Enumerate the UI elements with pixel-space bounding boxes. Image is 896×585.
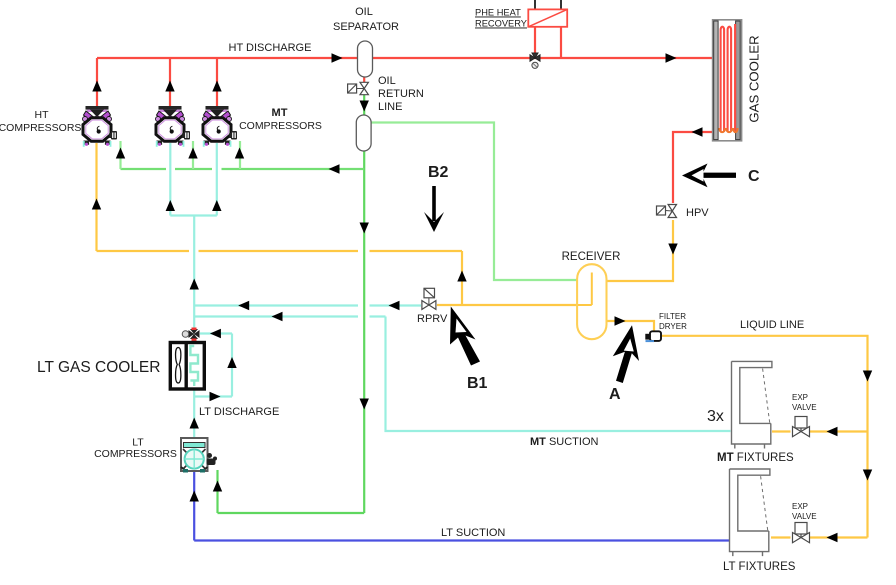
arrow vessel2 down line 2 [360,399,369,410]
arrow MT suction branch left [272,312,283,321]
wire oil valve to vessel2 [363,95,365,116]
wire HPV outlet down [607,220,674,281]
svg-text:C: C [748,168,760,185]
wire LT cooler bypass vertical [231,334,233,397]
svg-text:LIQUID LINE: LIQUID LINE [740,319,804,331]
wire comp1 discharge riser [96,58,98,108]
wire LT suction riser [193,472,195,541]
HPV solenoid valve [657,205,677,218]
svg-text:LT: LT [132,437,144,449]
wire LT discharge riser [193,340,195,438]
wire MT suction downcomer [386,317,731,432]
PHE heat recovery exchanger [528,9,567,26]
oil return solenoid valve [348,82,369,94]
arrow LT cooler top left [210,329,221,338]
svg-text:LINE: LINE [378,101,402,113]
wire MT suction branch line [194,315,385,317]
CALLOUTS [424,164,736,384]
svg-text:COMPRESSORS: COMPRESSORS [0,122,81,134]
svg-text:MT FIXTURES: MT FIXTURES [717,452,794,464]
arrow comp1 riser up [92,81,101,92]
callout arrow A [613,325,639,383]
wire vessel2 bottom down to LT branch [363,150,365,513]
svg-text:OIL: OIL [355,6,373,18]
callout arrow B2 [424,186,444,232]
arrow oil drop comp3 up [235,148,244,159]
arrow MT riser up [190,279,199,290]
MT compressor unit 2 [203,106,238,147]
arrow LT bypass up [227,357,236,368]
arrow LT suction up [190,491,199,502]
wire comp3 discharge riser [216,58,218,108]
arrow comp1 suction up [92,199,101,210]
receiver dip tube inner [578,273,592,306]
svg-text:LT DISCHARGE: LT DISCHARGE [199,406,279,418]
wire RPRV outlet line [194,304,421,306]
wire oil separator bottom stub [363,76,365,82]
svg-text:EXP: EXP [792,393,808,402]
svg-text:MT: MT [272,107,288,119]
ORANGE-LINES [97,143,868,538]
wire HT discharge header right [372,57,713,59]
svg-text:DRYER: DRYER [659,322,687,331]
svg-text:COMPRESSORS: COMPRESSORS [239,120,322,132]
LT compressor unit [181,438,217,473]
svg-text:A: A [609,386,621,403]
arrow oil to LT compressor up [213,481,222,492]
wire oil manifold to HT-MT compressors [121,168,365,170]
receiver [577,264,606,339]
svg-text:B2: B2 [428,164,449,181]
gas cooler [713,20,742,141]
callout arrow C [682,164,736,188]
svg-text:GAS COOLER: GAS COOLER [747,35,762,122]
svg-text:RECOVERY: RECOVERY [475,19,527,29]
svg-text:VALVE: VALVE [792,512,817,521]
RPRV valve [422,288,436,309]
svg-text:SEPARATOR: SEPARATOR [333,21,399,33]
wire receiver dip tube [591,273,593,306]
CYAN-LINES [170,143,730,438]
HT compressor unit [83,106,118,147]
wire vessel2 to receiver [372,123,579,281]
wire LT suction main [194,539,729,541]
wire oil drop comp1 [119,141,121,169]
LT expansion valve [793,523,810,543]
wire liquid line after filter dryer [662,336,868,538]
wire gas cooler outlet [673,132,713,203]
wire comp2 suction drop [169,143,171,216]
wire PHE left drop [534,27,536,58]
arrow comp2 suction up [166,200,175,211]
svg-text:RPRV: RPRV [417,313,448,325]
arrow comp3 riser up [212,81,221,92]
wire MT suction manifold [170,214,217,216]
arrow valve to vessel2 down [360,101,369,112]
svg-text:FILTER: FILTER [659,312,686,321]
callout arrow B1 [450,307,480,366]
arrow RPRV line left near riser [238,301,249,310]
arrow B2 drop up [457,271,466,282]
arrow vessel2 down line 1 [360,223,369,234]
svg-text:MT SUCTION: MT SUCTION [530,436,599,448]
wire comp1 suction riser [95,143,97,251]
wire MT suction riser upper [193,216,195,329]
arrow liquid line down 1 [863,371,872,382]
arrow LT exp feed left [827,533,838,542]
arrow HPV outlet down [668,244,677,255]
wire B2 flash gas line [97,250,463,252]
arrow LT bypass bottom right [210,392,221,401]
filter dryer [645,331,661,342]
wire HT discharge header left [97,57,358,59]
svg-text:PHE HEAT: PHE HEAT [475,8,521,18]
wire comp3 suction drop [216,143,218,216]
arrow comp3 suction up [212,200,221,211]
suction accumulator vessel [356,115,371,151]
arrow into oil separator [332,53,343,62]
svg-text:HT: HT [35,109,50,121]
svg-text:B1: B1 [467,375,488,392]
svg-text:EXP: EXP [792,502,808,511]
RED-LINES [97,27,713,203]
svg-text:HT DISCHARGE: HT DISCHARGE [229,42,312,54]
arrow liquid line down 2 [863,470,872,481]
LT fixture case [730,469,770,556]
svg-text:OIL: OIL [378,75,396,87]
wire oil return to LT compressor horizontal [218,512,365,514]
oil separator vessel [358,41,373,77]
svg-text:RETURN: RETURN [378,88,424,100]
PHE heat recovery stubs [535,0,561,10]
arrow oil drop comp2 up [188,148,197,159]
wire comp2 discharge riser [169,58,171,108]
BLUE-LINES [194,472,729,541]
wire receiver liquid outlet [607,321,655,332]
arrow oil drop comp1 up [116,148,125,159]
arrow MT exp feed left [827,427,838,436]
MT compressor unit 1 [156,106,191,147]
wire LT cooler bypass bottom [194,395,232,397]
three-way valve PHE [530,53,540,68]
arrow LT discharge up [190,418,199,429]
svg-text:RECEIVER: RECEIVER [562,251,621,263]
LT gas cooler [170,343,204,390]
wire oil return LT compressor riser [216,470,218,513]
wire B2 drop to RPRV line [461,251,463,305]
GREEN-LINES [121,95,579,513]
arrow gas cooler outlet left [692,127,703,136]
svg-text:LT FIXTURES: LT FIXTURES [723,561,796,573]
arrow into gas cooler [666,53,677,62]
MT expansion valve [793,417,810,437]
arrow oil manifold left [329,164,340,173]
arrow liquid outlet right [615,316,626,325]
wire PHE right drop [560,27,562,58]
wire oil drop comp3 [239,141,241,169]
arrow RPRV line left far [389,301,400,310]
svg-text:VALVE: VALVE [792,403,817,412]
svg-text:LT SUCTION: LT SUCTION [441,527,505,539]
wire oil drop comp2 [192,141,194,169]
svg-text:HPV: HPV [686,207,709,219]
LT gas cooler three-way valve [182,328,199,342]
MT fixture case [732,361,772,448]
wire RPRV to receiver dip tube [437,304,592,306]
svg-text:COMPRESSORS: COMPRESSORS [94,448,177,460]
svg-text:3x: 3x [707,408,724,425]
wire MT expansion feed [772,430,868,432]
svg-text:LT GAS COOLER: LT GAS COOLER [37,359,160,376]
wire LT expansion feed [771,536,868,538]
arrow comp2 riser up [165,81,174,92]
wire LT cooler valve to bypass [200,332,232,334]
